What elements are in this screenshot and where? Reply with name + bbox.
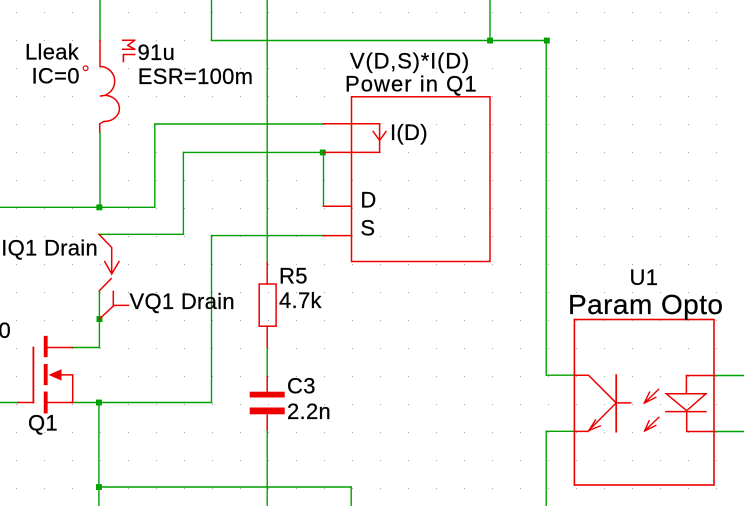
- wire vertical x=351.2 bottom: [350, 487, 352, 506]
- Q1 source lead: [48, 402, 72, 404]
- voltage probe VQ1 Drain: [99, 292, 128, 320]
- svg-text:91u: 91u: [138, 40, 176, 65]
- wire to opto emitter pin: [546, 430, 574, 432]
- wire vertical x=211 top: [211, 0, 213, 41]
- wire top of Lleak: [99, 0, 101, 41]
- wire below C3: [266, 431, 268, 506]
- wire vertical x=183.4: [182, 152, 184, 234]
- current probe IQ1 Drain: [99, 234, 119, 290]
- U1 LED cathode bar: [666, 411, 706, 413]
- svg-text:Lleak: Lleak: [25, 40, 80, 65]
- svg-text:2.2n: 2.2n: [287, 399, 331, 424]
- U1 phototransistor collector: [574, 375, 616, 403]
- inductor core marker glyph (rotated M): [123, 40, 135, 49]
- wire bottom horizontal y=487: [99, 486, 351, 488]
- junction inductor bottom: [96, 204, 102, 210]
- wire horizontal y=124 to I(D) probe: [155, 123, 324, 125]
- svg-text:I(D): I(D): [390, 120, 428, 145]
- U1 light arrow upper: [644, 389, 659, 403]
- svg-text:U1: U1: [630, 265, 659, 290]
- junction D-pin node: [320, 150, 326, 156]
- svg-text:Q1: Q1: [28, 410, 58, 435]
- wire drain node vertical: [98, 291, 100, 348]
- Q1 drain lead: [48, 347, 72, 349]
- junction x=490 y=40: [487, 38, 493, 44]
- wire opto cathode right: [714, 431, 744, 433]
- wire vertical x=546 bottom: [545, 431, 547, 506]
- pin D lead: [324, 205, 352, 207]
- wire horizontal y=235.6 S pin: [212, 235, 324, 237]
- svg-text:0: 0: [0, 318, 11, 343]
- wire horizontal y=234.3 to IQ1 probe: [99, 233, 183, 235]
- wire horizontal y=207 from left edge: [0, 206, 155, 208]
- Q1 body-diode arrow: [49, 369, 62, 380]
- U1 LED anode lead: [686, 376, 713, 394]
- svg-text:VQ1 Drain: VQ1 Drain: [130, 289, 235, 314]
- wire R5 column top: [266, 0, 268, 263]
- junction VQ1 drain node: [97, 316, 103, 322]
- wire horizontal y=152.4: [183, 151, 323, 153]
- U1 phototransistor base stub: [616, 402, 631, 404]
- resistor R5: [259, 263, 276, 347]
- svg-text:C3: C3: [287, 373, 316, 398]
- inductor Lleak: [100, 41, 120, 133]
- junction source node: [96, 400, 102, 406]
- power probe box U-power: [352, 97, 491, 262]
- wire vertical below source junction: [98, 403, 100, 506]
- svg-text:ESR=100m: ESR=100m: [138, 64, 254, 89]
- wire horizontal top rail y=40: [212, 40, 547, 42]
- wire below Lleak: [99, 132, 101, 207]
- wire between R5 and C3: [266, 347, 268, 376]
- wire gate lead green: [0, 402, 18, 404]
- svg-text:4.7k: 4.7k: [279, 288, 322, 313]
- opto-coupler U1 box: [574, 320, 714, 486]
- capacitor C3: [250, 376, 285, 431]
- wire vertical x=154.8: [154, 124, 156, 207]
- wire vertical x=490 top: [489, 0, 491, 41]
- junction bottom rail: [96, 484, 102, 490]
- wire drain horizontal: [72, 347, 100, 349]
- wire vertical x=211.5 source column: [211, 236, 213, 403]
- svg-text:D: D: [360, 188, 376, 213]
- wire vertical x=546 long: [545, 41, 547, 376]
- U1 phototransistor base bar: [615, 375, 617, 432]
- inductor phase dot: [83, 66, 88, 71]
- pin S lead: [323, 235, 351, 237]
- wire source horizontal: [72, 402, 212, 404]
- wire vertical x=323.5 to D pin: [323, 152, 325, 206]
- Q1 channel segment bottom: [44, 394, 48, 412]
- svg-text:R5: R5: [279, 264, 308, 289]
- Q1 gate bar: [32, 348, 34, 403]
- Q1 gate lead: [18, 402, 33, 404]
- svg-text:Param Opto: Param Opto: [568, 289, 723, 320]
- U1 emitter arrowhead: [589, 420, 601, 431]
- svg-text:V(D,S)*I(D): V(D,S)*I(D): [350, 49, 470, 74]
- wire opto anode right: [714, 375, 744, 377]
- transistor Q1 (N-MOSFET): [18, 338, 73, 412]
- I(D) probe loop with arrow: [323, 124, 386, 153]
- U1 LED triangle: [666, 394, 706, 411]
- svg-text:Power in Q1: Power in Q1: [345, 71, 478, 96]
- Q1 channel segment top: [44, 338, 48, 355]
- svg-text:S: S: [360, 215, 375, 240]
- U1 LED cathode lead: [687, 412, 713, 432]
- U1 light arrow lower: [645, 417, 659, 431]
- svg-text:IQ1 Drain: IQ1 Drain: [1, 235, 98, 260]
- Q1 body wire: [62, 375, 73, 403]
- U1 phototransistor emitter: [574, 403, 616, 432]
- wire to opto collector pin: [546, 374, 574, 376]
- inductor core marker glyph (rotated L): [123, 55, 134, 62]
- svg-text:IC=0: IC=0: [32, 63, 80, 88]
- junction x=546 y=40: [544, 38, 550, 44]
- Q1 channel segment middle: [44, 366, 48, 383]
